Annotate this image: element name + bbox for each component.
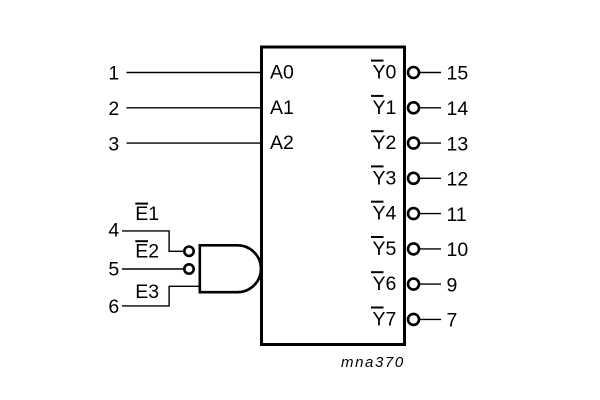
svg-text:5: 5	[108, 258, 119, 280]
wire Y2 to pin 13	[420, 142, 441, 144]
wire pin5 to E2 bubble	[122, 268, 184, 270]
overbar Y7	[371, 307, 384, 309]
bubble Y0	[408, 67, 419, 78]
svg-text:mna370: mna370	[341, 354, 405, 371]
wire Y1 to pin 14	[420, 107, 441, 109]
overbar Y5	[371, 236, 384, 238]
overbar E1	[135, 203, 148, 205]
svg-text:A0: A0	[270, 62, 294, 84]
wire Y5 to pin 10	[420, 248, 441, 250]
inverter bubble E1	[184, 247, 193, 256]
svg-text:15: 15	[447, 63, 469, 85]
inverter bubble E2	[184, 264, 193, 273]
overbar Y6	[371, 271, 384, 273]
svg-text:14: 14	[447, 98, 469, 120]
svg-text:Y5: Y5	[372, 238, 396, 260]
svg-text:A2: A2	[270, 132, 294, 154]
svg-text:Y2: Y2	[372, 132, 396, 154]
svg-text:9: 9	[447, 274, 458, 296]
AND gate G1	[200, 245, 261, 292]
wire Y4 to pin 11	[420, 213, 441, 215]
svg-text:A1: A1	[270, 97, 294, 119]
wire Y7 to pin 7	[420, 318, 441, 320]
svg-text:E3: E3	[135, 281, 159, 303]
wire pin6 elbow to gate	[122, 286, 199, 306]
svg-text:6: 6	[108, 296, 119, 318]
svg-text:Y7: Y7	[372, 308, 396, 330]
svg-text:E2: E2	[135, 241, 159, 263]
svg-text:Y0: Y0	[372, 62, 396, 84]
wire pin3 to A2	[127, 142, 262, 144]
wire pin1 to A0	[127, 72, 262, 74]
svg-text:10: 10	[447, 239, 469, 261]
svg-text:11: 11	[447, 204, 467, 226]
bubble Y3	[408, 173, 419, 184]
bubble Y7	[408, 314, 419, 325]
overbar Y2	[371, 130, 384, 132]
overbar Y1	[371, 95, 384, 97]
svg-text:Y4: Y4	[372, 203, 396, 225]
wire Y0 to pin 15	[420, 72, 441, 74]
bubble Y1	[408, 102, 419, 113]
svg-text:1: 1	[108, 63, 119, 85]
wire pin4 elbow to E1 bubble	[122, 231, 184, 251]
svg-text:2: 2	[108, 98, 119, 120]
overbar E2	[135, 240, 148, 242]
overbar Y3	[371, 165, 384, 167]
svg-text:7: 7	[447, 310, 458, 332]
bubble Y2	[408, 138, 419, 149]
IC body U1	[262, 47, 405, 345]
svg-text:3: 3	[108, 133, 119, 155]
wire Y3 to pin 12	[420, 177, 441, 179]
svg-text:12: 12	[447, 169, 469, 191]
overbar Y4	[371, 201, 384, 203]
wire Y6 to pin 9	[420, 283, 441, 285]
wire pin2 to A1	[127, 107, 262, 109]
bubble Y4	[408, 208, 419, 219]
svg-text:4: 4	[108, 219, 119, 241]
bubble Y6	[408, 279, 419, 290]
svg-text:13: 13	[447, 133, 469, 155]
bubble Y5	[408, 243, 419, 254]
svg-text:E1: E1	[135, 203, 159, 225]
svg-text:Y6: Y6	[372, 273, 396, 295]
overbar Y0	[371, 60, 384, 62]
svg-text:Y3: Y3	[372, 167, 396, 189]
svg-text:Y1: Y1	[372, 97, 396, 119]
